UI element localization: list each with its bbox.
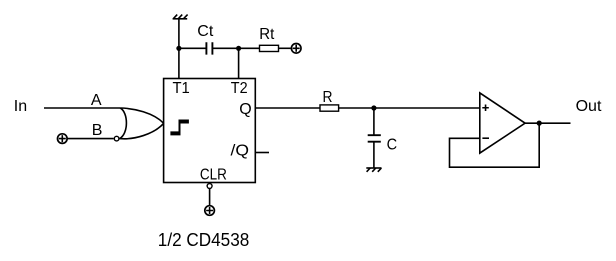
svg-text:R: R: [323, 89, 333, 106]
svg-text:A: A: [91, 92, 102, 109]
svg-text:T2: T2: [231, 80, 248, 97]
svg-text:C: C: [387, 136, 398, 153]
svg-text:B: B: [92, 122, 103, 139]
svg-text:Rt: Rt: [259, 26, 275, 43]
svg-text:Q: Q: [239, 101, 251, 118]
svg-text:/Q: /Q: [231, 142, 250, 159]
svg-text:T1: T1: [173, 80, 190, 97]
svg-text:Out: Out: [576, 98, 602, 115]
svg-text:1/2 CD4538: 1/2 CD4538: [158, 230, 250, 250]
svg-text:CLR: CLR: [200, 167, 227, 184]
svg-text:In: In: [14, 98, 27, 115]
svg-text:Ct: Ct: [197, 23, 214, 40]
